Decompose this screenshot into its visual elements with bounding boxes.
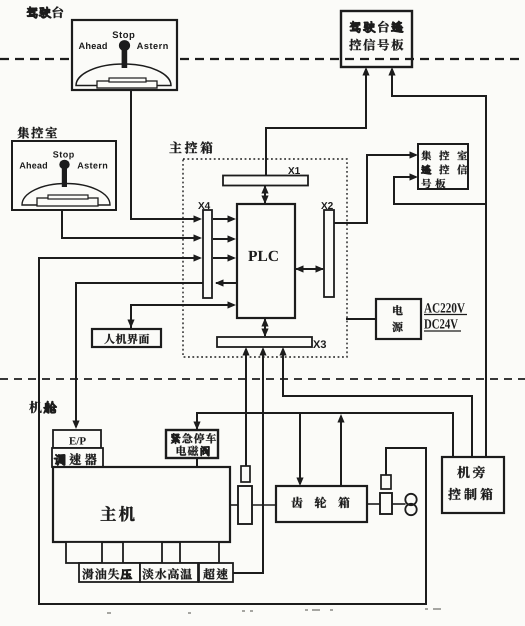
bridge telegraph lever knob [119, 40, 130, 51]
bridge telegraph box [72, 20, 177, 90]
wire shaft-speed feedback to X4 [39, 254, 426, 604]
alarm text 淡水高温 [142, 568, 192, 579]
engine speed sensor [241, 466, 250, 482]
label X3 [313, 340, 326, 348]
wire engine speed sensor to X3 [242, 347, 249, 466]
label engine room 机舱 [29, 401, 56, 413]
gearbox 齿轮箱 [276, 486, 367, 522]
wire bridge telegraph to X4 [131, 90, 202, 223]
alarm box fresh water temp [140, 563, 198, 582]
label PLC [248, 251, 278, 261]
connector X2 [324, 210, 334, 297]
bridge telegraph pedestal [97, 81, 157, 88]
wire X1-PLC link [261, 185, 268, 204]
propeller symbol circles [405, 494, 416, 515]
shaft coupling to gearbox [252, 504, 275, 506]
power supply text 电 [393, 305, 403, 315]
bridge remote signal board text row1 [350, 21, 403, 33]
HMI box 人机界面 [92, 329, 161, 347]
ECR signal board text row3 [421, 179, 445, 189]
gearbox output sensor [381, 475, 391, 489]
ECR signal board text row2 [421, 165, 467, 175]
ECR telegraph lever stem [62, 167, 67, 187]
alarm box lube oil pressure [79, 563, 140, 582]
connector X1 [223, 176, 308, 186]
gearbox text [291, 497, 349, 508]
underline AC220V [424, 314, 467, 316]
ECR signal board text row1 [422, 151, 468, 161]
label X2 [321, 202, 333, 209]
bridge remote signal board text row2 [349, 39, 403, 51]
alarm text 滑油失压 [82, 568, 131, 579]
connector X3 [217, 337, 312, 347]
HMI text [104, 334, 149, 344]
label main control box 主控箱 [169, 141, 212, 153]
underline DC24V [424, 330, 461, 332]
wire X4 to PLC in3 [213, 254, 236, 261]
shaft coupling 1 [238, 486, 252, 524]
wire alarm group to X3 [231, 347, 267, 573]
solenoid text row1 紧急停车 [171, 433, 216, 444]
label X4 [198, 202, 210, 209]
label E/P [69, 437, 86, 444]
label bridge deck 驾驶台 [27, 6, 63, 18]
bridge remote signal board box [341, 11, 412, 67]
main engine box 主机 [53, 467, 230, 542]
ECR telegraph box [12, 141, 116, 210]
engine mount leg 1 [66, 542, 102, 563]
local control box text row1 [457, 466, 485, 478]
wire power supply feed [346, 318, 376, 320]
stub solenoid to engine [196, 458, 198, 467]
caption remnant dots [107, 609, 441, 613]
local control box 机旁控制箱 [442, 457, 504, 513]
ECR telegraph pedestal plate [48, 195, 88, 199]
E/P governor box bottom cell [52, 448, 103, 467]
emergency stop solenoid box [166, 430, 218, 458]
label ECR 集控室 [18, 127, 57, 139]
bridge telegraph Stop [112, 31, 134, 40]
shaft coupling 2 to propeller [392, 503, 406, 505]
connector X4 [203, 210, 212, 298]
dashed divider engine room [0, 378, 525, 380]
alarm box overspeed [199, 563, 233, 582]
dashed divider bridge deck [0, 58, 525, 60]
label X1 [288, 167, 300, 174]
wire bridge board to local control box [388, 67, 486, 457]
power supply box 电源 [376, 299, 421, 339]
wire PLC-X3 link [261, 318, 268, 337]
main engine text [101, 506, 135, 522]
ECR remote signal board box [418, 144, 468, 189]
wire X4 out to E/P governor [72, 283, 203, 429]
ECR telegraph Astern [77, 162, 107, 168]
shaft gearbox to coupling 2 [368, 503, 381, 505]
wire PLC-X2 link [295, 265, 324, 272]
bridge telegraph dome [76, 64, 171, 86]
solenoid text row2 电磁阀 [177, 446, 210, 456]
wire gearbox feedback to bus [337, 414, 344, 486]
E/P governor box top cell [53, 430, 101, 448]
ECR telegraph dome [22, 184, 110, 206]
wire ECR telegraph to X4 [62, 210, 202, 242]
PLC box U1 [237, 204, 295, 318]
wire X4 to PLC in2 [213, 235, 236, 242]
engine mount leg 3 [180, 542, 219, 563]
wire X1 to bridge signal board [266, 67, 370, 176]
alarm text 超速 [203, 568, 228, 579]
wire local control box to X3 [279, 347, 472, 457]
wire engine-room bus [193, 413, 453, 457]
bridge telegraph Ahead [79, 42, 107, 49]
local control box text row2 [448, 488, 492, 500]
label AC220V [424, 303, 465, 313]
governor text 调速器 [54, 453, 96, 465]
wire branch to ECR signal board lower [394, 173, 486, 204]
shaft coupling 2 [380, 493, 392, 514]
label DC24V [424, 319, 458, 328]
ECR telegraph lever knob [59, 160, 69, 170]
bridge telegraph pedestal plate [109, 78, 146, 82]
wire bus to gearbox clutch [296, 413, 303, 486]
shaft engine to coupling [230, 504, 238, 506]
wire X4 to PLC in1 [213, 215, 236, 222]
wire X2 to ECR signal board [334, 151, 418, 223]
wire PLC to X4 out [215, 279, 236, 286]
ECR telegraph Stop [53, 151, 74, 159]
power supply text 源 [392, 322, 402, 332]
ECR telegraph Ahead [20, 162, 47, 169]
ECR telegraph pedestal [37, 198, 98, 206]
engine mount leg 2 [123, 542, 162, 563]
bridge telegraph Astern [137, 43, 168, 49]
wire PLC to HMI link [127, 301, 236, 328]
main control box dashed outline [183, 159, 347, 357]
bridge telegraph lever stem [122, 49, 128, 68]
